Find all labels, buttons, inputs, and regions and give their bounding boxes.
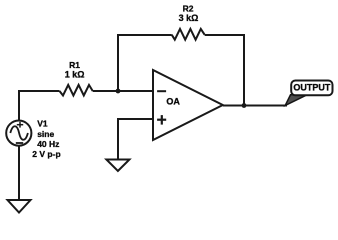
wire source to ground [18, 146, 20, 200]
svg-text:1 kΩ: 1 kΩ [65, 69, 85, 79]
resistor R1 [60, 60, 93, 95]
output callout tail [285, 95, 307, 106]
output callout box [291, 81, 332, 96]
wire op-amp output [223, 105, 287, 107]
node junction at R1 / feedback [116, 89, 121, 94]
ground below non-inverting input [106, 160, 129, 172]
wire R1 to inverting input [93, 90, 152, 92]
source V1 [6, 118, 60, 158]
wire non-inverting input [118, 119, 152, 159]
wire top feedback left segment [118, 35, 172, 91]
resistor R2 [172, 4, 205, 40]
ground below V1 [8, 200, 31, 213]
wire top feedback right segment [205, 35, 244, 106]
op-amp OA [153, 70, 223, 140]
svg-text:3 kΩ: 3 kΩ [179, 13, 199, 23]
wire source to R1 [19, 91, 60, 121]
svg-text:40 Hz: 40 Hz [37, 139, 59, 149]
node junction at output / feedback [242, 103, 247, 108]
svg-text:sine: sine [37, 129, 54, 139]
svg-text:2 V p-p: 2 V p-p [32, 149, 60, 159]
svg-text:OUTPUT: OUTPUT [293, 83, 331, 93]
svg-text:V1: V1 [37, 118, 48, 128]
svg-text:OA: OA [166, 97, 180, 107]
